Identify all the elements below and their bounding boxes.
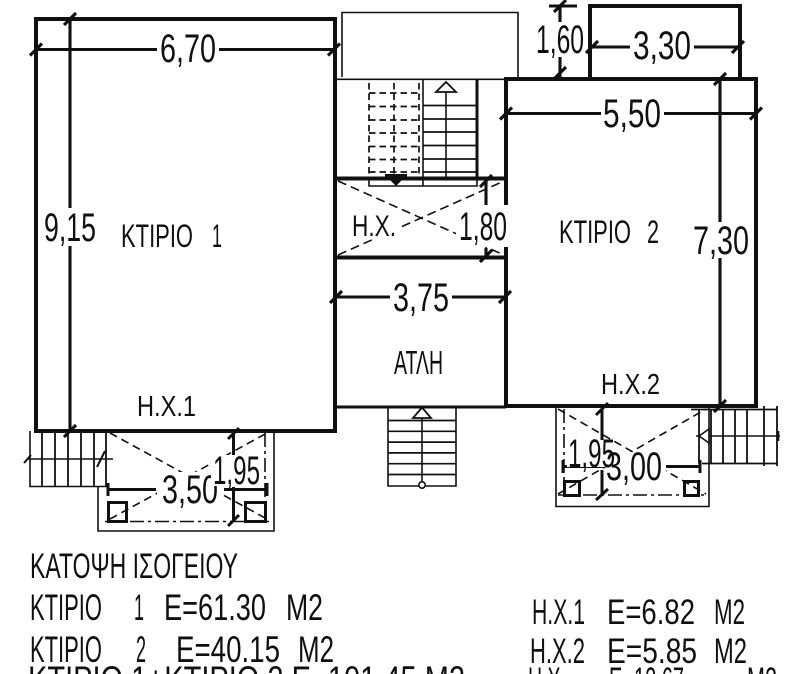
axis vertical left balcony: [264, 433, 266, 519]
svg-text:ΑΤΛΗ: ΑΤΛΗ: [394, 344, 443, 381]
dimension 1.95 left: [228, 428, 239, 526]
svg-text:Μ2: Μ2: [286, 587, 323, 628]
left outdoor stair treads: [42, 431, 106, 487]
dimension 3.75: [330, 291, 511, 303]
area row building 2: [30, 629, 334, 670]
svg-text:ΚΤΙΡΙΟ 1+ΚΤΙΡΙΟ 2 Ε=101.45 Μ2: ΚΤΙΡΙΟ 1+ΚΤΙΡΙΟ 2 Ε=101.45 Μ2: [28, 659, 465, 674]
svg-text:7,30: 7,30: [693, 219, 749, 263]
svg-text:Η.Χ.2: Η.Χ.2: [601, 369, 660, 401]
svg-text:3,50: 3,50: [162, 468, 218, 512]
stair separator: [422, 79, 424, 186]
svg-text:1,95: 1,95: [568, 432, 615, 476]
svg-text:Μ2: Μ2: [714, 593, 745, 632]
dimension line 5.50: [500, 108, 762, 120]
right stair direction arrow: [696, 435, 780, 437]
svg-text:ΚΑΤΟΨΗ ΙΣΟΓΕΙΟΥ: ΚΑΤΟΨΗ ΙΣΟΓΕΙΟΥ: [30, 547, 238, 586]
svg-text:5,50: 5,50: [603, 92, 661, 136]
landing bottom wall: [335, 177, 506, 181]
svg-text:Η.Χ.: Η.Χ.: [352, 210, 396, 243]
column B2 right: [685, 482, 699, 496]
svg-text:1,60: 1,60: [536, 18, 584, 62]
stair lower landing edge: [369, 180, 477, 186]
axis vertical right balcony: [563, 409, 565, 493]
column axis line left balcony: [105, 521, 270, 523]
column B1 right: [246, 503, 266, 522]
column B1 left: [109, 503, 127, 522]
dimension 1.80: [480, 175, 492, 262]
svg-text:2: 2: [647, 214, 659, 250]
building 2 outline: [506, 79, 756, 406]
dimension line 3.30: [586, 41, 744, 53]
svg-text:1: 1: [134, 587, 144, 628]
stair flight right treads: [423, 106, 477, 173]
svg-text:ΚΤΙΡΙΟ: ΚΤΙΡΙΟ: [121, 218, 193, 254]
balcony 1 X-brace: [110, 433, 267, 519]
dimension text 7.30: [690, 222, 752, 258]
area row H.X.1: [532, 593, 745, 632]
column axis line right balcony: [558, 494, 706, 496]
stair right wall: [476, 79, 479, 178]
svg-text:Μ2: Μ2: [747, 661, 777, 674]
svg-text:6,70: 6,70: [160, 27, 216, 71]
svg-text:Ε=61.30: Ε=61.30: [164, 587, 266, 628]
dimension line 7.30: [714, 73, 726, 412]
courtyard stair arrow: [421, 416, 423, 482]
stair threshold: [385, 174, 407, 178]
balcony 2 outline: [556, 407, 709, 507]
dimension line 9.15: [64, 13, 76, 437]
dimension 3.50: [108, 483, 267, 496]
svg-text:Η.Χ.1: Η.Χ.1: [137, 391, 196, 423]
svg-text:1,80: 1,80: [459, 205, 507, 249]
svg-text:9,15: 9,15: [44, 206, 96, 250]
svg-text:ΚΤΙΡΙΟ: ΚΤΙΡΙΟ: [559, 214, 631, 250]
stair flight left dashed: [369, 83, 419, 177]
stairwell enclosure: [342, 13, 518, 78]
courtyard stair box: [388, 407, 456, 486]
svg-text:1,95: 1,95: [213, 449, 260, 493]
balcony 1 outline: [98, 431, 274, 531]
svg-text:ΚΤΙΡΙΟ: ΚΤΙΡΙΟ: [30, 587, 102, 628]
column B2 left: [565, 482, 580, 496]
svg-text:Μ2: Μ2: [714, 632, 747, 671]
H.X. bottom wall: [335, 256, 506, 260]
svg-text:Η.Χ.: Η.Χ.: [528, 661, 566, 674]
H.X. canopy X-brace: [338, 181, 504, 255]
svg-text:3,75: 3,75: [393, 276, 449, 320]
building 1 outline: [36, 19, 335, 431]
right outdoor stair: [691, 406, 777, 466]
svg-text:Ε=6.82: Ε=6.82: [607, 593, 695, 632]
stairwell top line: [336, 78, 506, 80]
area row H.X.2: [530, 632, 747, 671]
svg-text:Η.Χ.1: Η.Χ.1: [532, 593, 585, 632]
courtyard stair treads: [388, 421, 456, 475]
stair up arrow: [445, 92, 447, 177]
svg-text:3,30: 3,30: [633, 24, 691, 68]
left stair direction line: [27, 458, 113, 460]
svg-text:Ε=12.67: Ε=12.67: [609, 661, 684, 674]
left outdoor stair box: [30, 431, 107, 487]
balcony 2 X-brace: [558, 409, 706, 494]
svg-text:1: 1: [212, 218, 222, 254]
area row building 1: [30, 587, 323, 628]
dimension line 6.70: [30, 44, 340, 56]
roof box 3.30: [590, 6, 740, 79]
H.X. label: [350, 212, 398, 239]
cut-off total row right: [528, 661, 777, 674]
dimension 3.00: [563, 460, 700, 473]
courtyard bottom wall: [335, 406, 506, 409]
dimension 1.60: [549, 0, 577, 79]
dimension 1.95 right: [596, 403, 608, 500]
